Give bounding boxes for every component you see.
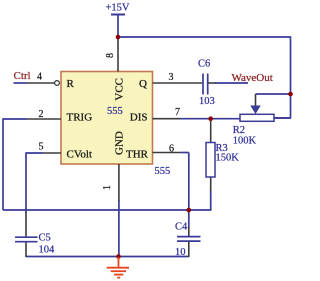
svg-text:103: 103 <box>199 96 215 107</box>
svg-text:CVolt: CVolt <box>67 149 92 161</box>
svg-text:10: 10 <box>175 247 186 258</box>
svg-text:100K: 100K <box>233 136 257 147</box>
svg-text:C4: C4 <box>175 222 188 233</box>
svg-text:8: 8 <box>105 53 116 58</box>
svg-text:150K: 150K <box>216 153 240 164</box>
svg-text:+15V: +15V <box>106 3 130 14</box>
svg-text:7: 7 <box>175 107 180 118</box>
svg-text:GND: GND <box>114 131 126 155</box>
svg-text:WaveOut: WaveOut <box>232 72 273 84</box>
svg-text:DIS: DIS <box>130 112 148 124</box>
svg-text:1: 1 <box>102 185 113 190</box>
svg-text:555: 555 <box>107 106 123 117</box>
svg-text:3: 3 <box>169 72 174 83</box>
svg-text:Ctrl: Ctrl <box>14 70 31 82</box>
svg-text:VCC: VCC <box>114 78 126 101</box>
svg-text:2: 2 <box>39 109 44 120</box>
svg-text:104: 104 <box>39 245 56 256</box>
svg-text:6: 6 <box>169 144 174 155</box>
svg-text:5: 5 <box>39 142 44 153</box>
svg-text:THR: THR <box>126 149 149 161</box>
svg-text:555: 555 <box>155 166 171 177</box>
svg-text:R2: R2 <box>233 125 245 136</box>
svg-text:4: 4 <box>37 72 42 83</box>
svg-text:R: R <box>67 78 75 90</box>
svg-text:C5: C5 <box>39 233 51 244</box>
svg-text:C6: C6 <box>198 59 210 70</box>
svg-text:TRIG: TRIG <box>67 112 93 124</box>
svg-text:Q: Q <box>139 78 147 90</box>
